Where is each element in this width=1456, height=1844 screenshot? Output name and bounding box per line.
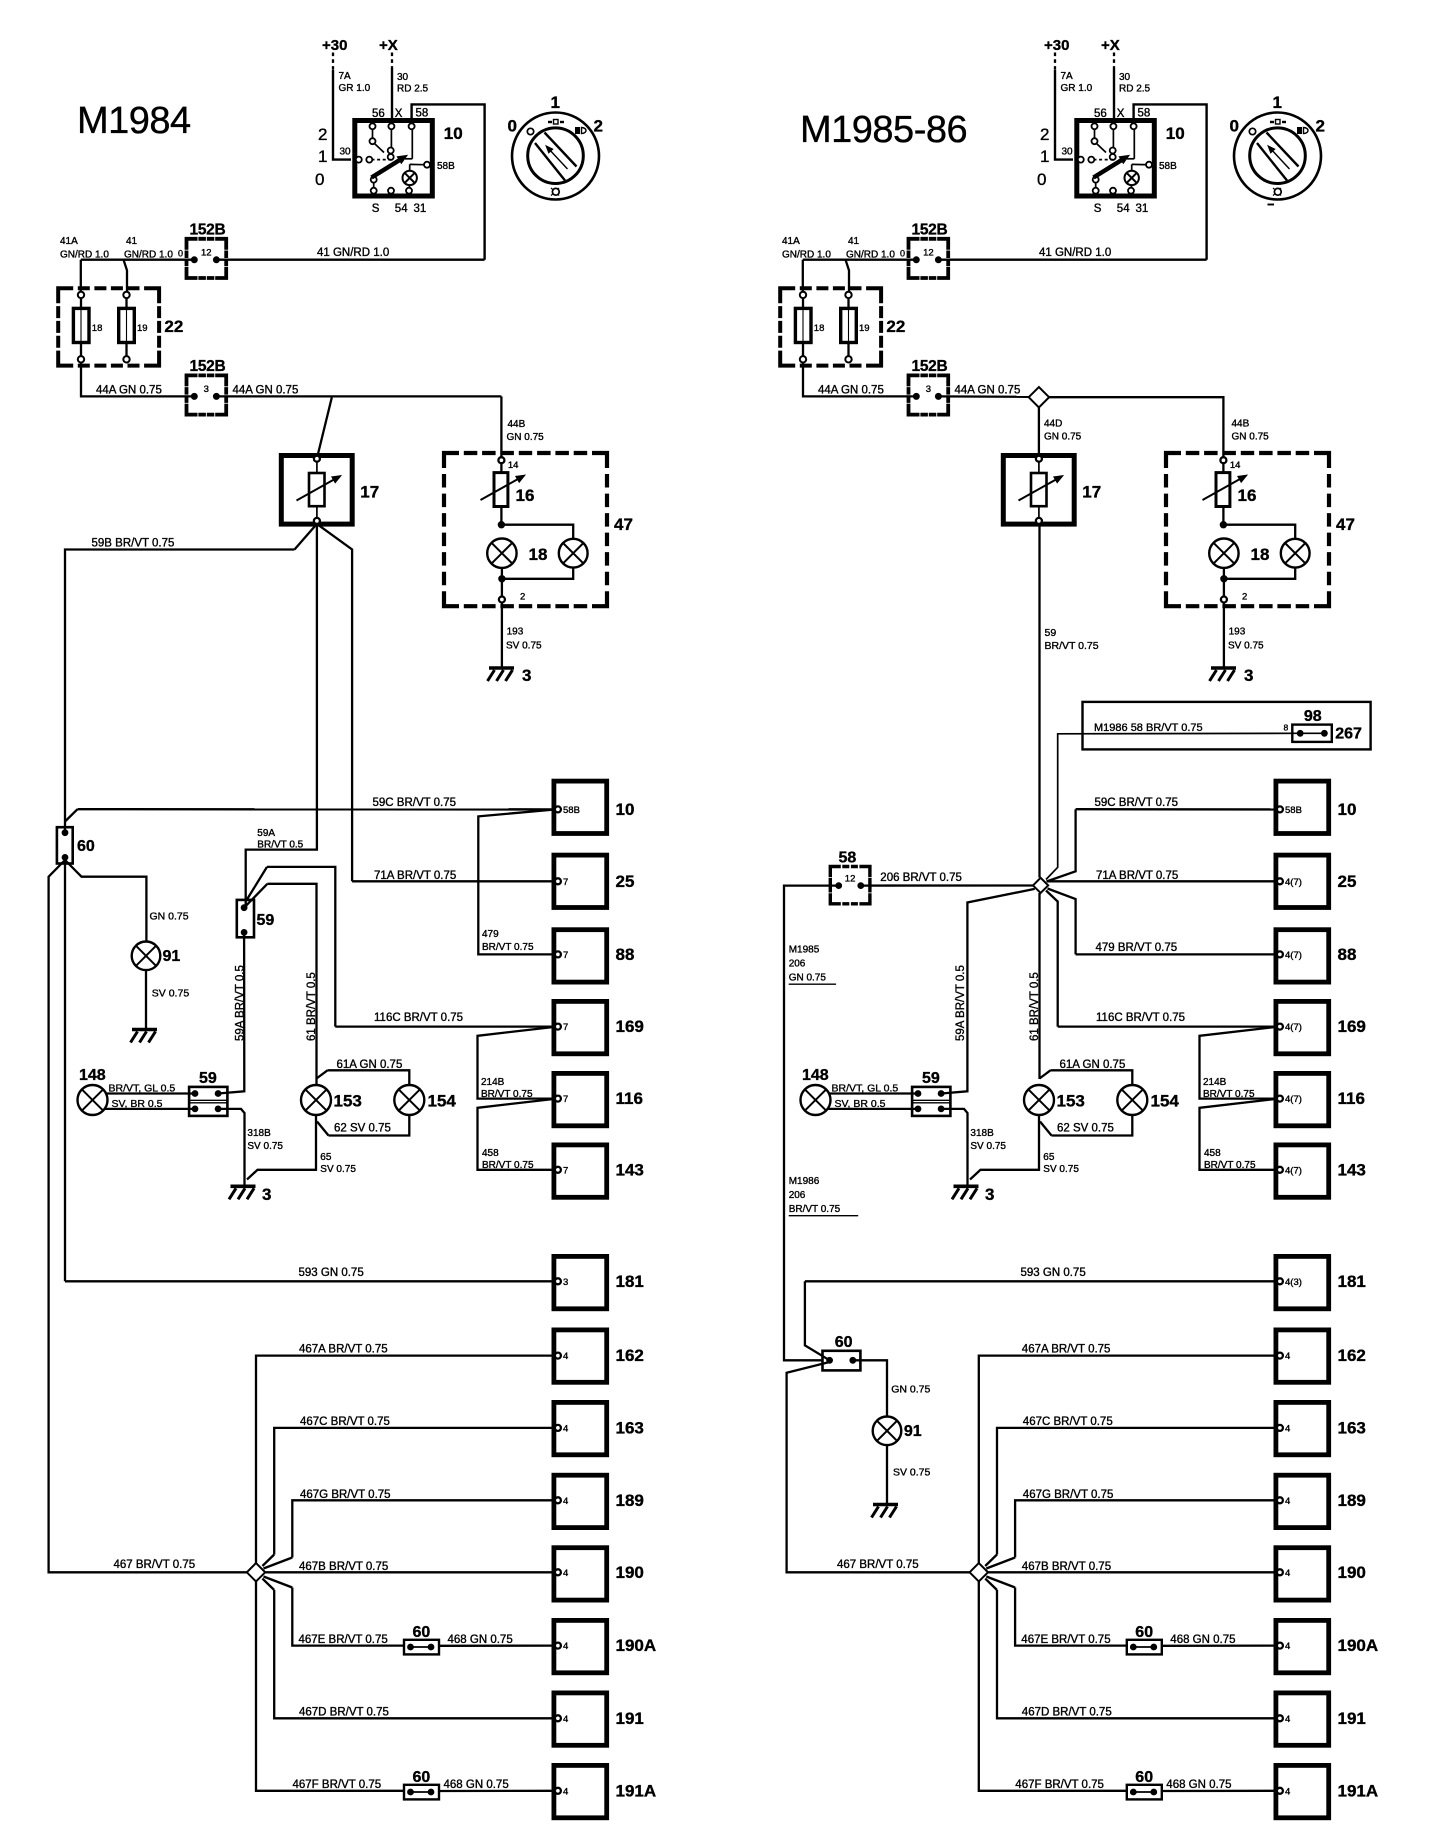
svg-text:10: 10	[1166, 124, 1185, 143]
wire to 116C	[246, 867, 267, 902]
svg-text:22: 22	[886, 317, 905, 336]
svg-text:60: 60	[1135, 1624, 1153, 1641]
switch wiper arm	[1094, 160, 1123, 178]
wire to lamps	[1222, 507, 1224, 525]
svg-text:91: 91	[163, 948, 181, 965]
wire 65 SV 0.75	[970, 1115, 1039, 1180]
wire to 61	[244, 884, 267, 908]
lamp ground bus	[501, 568, 503, 579]
wire 467 trunk right	[787, 1362, 970, 1572]
connector box 116	[1276, 1073, 1329, 1125]
wire 62 SV 0.75	[317, 1122, 329, 1136]
svg-text:61A GN 0.75: 61A GN 0.75	[1060, 1059, 1126, 1071]
wire 479 BR/VT 0.75	[1076, 953, 1277, 955]
wire 467F BR/VT 0.75	[979, 1582, 1127, 1791]
fuse 18	[80, 298, 82, 308]
svg-text:593 GN 0.75: 593 GN 0.75	[1021, 1267, 1086, 1279]
junction diamond 44	[1029, 387, 1049, 407]
svg-text:467G BR/VT 0.75: 467G BR/VT 0.75	[300, 1489, 391, 1501]
svg-text:65: 65	[1043, 1152, 1055, 1163]
svg-text:60: 60	[413, 1624, 431, 1641]
wire 61 from junction	[1038, 893, 1040, 1079]
svg-text:58B: 58B	[563, 805, 580, 816]
svg-text:16: 16	[516, 486, 535, 505]
svg-text:0: 0	[178, 248, 183, 258]
wire SV 0.75 under lamp 91	[886, 1445, 888, 1503]
wire 467G BR/VT 0.75	[264, 1558, 293, 1569]
svg-text:3: 3	[926, 384, 931, 395]
svg-text:4: 4	[563, 1423, 568, 1434]
svg-text:143: 143	[616, 1160, 644, 1179]
key mark below ring	[1268, 204, 1275, 206]
svg-text:31: 31	[414, 203, 427, 215]
connector box 181	[554, 1256, 607, 1308]
svg-text:62 SV 0.75: 62 SV 0.75	[334, 1123, 391, 1135]
svg-text:S: S	[1094, 203, 1102, 215]
svg-text:4(7): 4(7)	[1285, 1165, 1302, 1176]
svg-text:SV 0.75: SV 0.75	[1043, 1164, 1079, 1175]
svg-text:58B: 58B	[437, 161, 455, 172]
svg-text:4: 4	[1285, 1496, 1290, 1507]
svg-text:191A: 191A	[616, 1781, 657, 1800]
svg-text:BR/VT 0.75: BR/VT 0.75	[1045, 640, 1099, 652]
svg-text:M1986 58 BR/VT 0.75: M1986 58 BR/VT 0.75	[1094, 722, 1203, 734]
svg-text:3: 3	[522, 666, 531, 685]
ground 3 mid	[954, 1185, 979, 1189]
svg-text:SV 0.75: SV 0.75	[893, 1467, 931, 1479]
rheostat 17	[281, 456, 352, 525]
svg-text:GN/RD 1.0: GN/RD 1.0	[782, 250, 831, 261]
connector box 162	[554, 1330, 607, 1382]
svg-text:+30: +30	[322, 37, 347, 54]
svg-text:S: S	[372, 203, 380, 215]
svg-text:2: 2	[1242, 592, 1247, 603]
pin 2	[499, 597, 505, 603]
svg-text:163: 163	[616, 1418, 644, 1437]
connector box 88	[554, 930, 607, 982]
svg-text:467 BR/VT 0.75: 467 BR/VT 0.75	[114, 1559, 196, 1571]
svg-text:467B BR/VT 0.75: 467B BR/VT 0.75	[299, 1561, 388, 1573]
svg-text:1: 1	[1040, 147, 1049, 166]
wire 214B BR/VT 0.75	[1200, 1027, 1277, 1099]
svg-text:467E BR/VT 0.75: 467E BR/VT 0.75	[1021, 1634, 1110, 1646]
svg-text:1: 1	[551, 93, 560, 112]
svg-text:BR/VT 0.75: BR/VT 0.75	[789, 1204, 841, 1215]
connector box 190	[1276, 1548, 1329, 1600]
svg-text:479 BR/VT 0.75: 479 BR/VT 0.75	[1096, 942, 1178, 954]
svg-text:BR/VT 0.75: BR/VT 0.75	[482, 942, 534, 953]
svg-text:RD 2.5: RD 2.5	[1119, 84, 1151, 95]
lamp 148	[78, 1085, 108, 1115]
svg-text:4: 4	[1285, 1714, 1290, 1725]
wire 193 SV 0.75	[501, 603, 503, 668]
svg-text:91: 91	[904, 1423, 922, 1440]
connector 58	[830, 867, 870, 904]
wire 479 riser right	[1048, 889, 1076, 955]
wire SV BR 0.5	[828, 1108, 917, 1110]
svg-text:3: 3	[1244, 666, 1253, 685]
svg-text:61 BR/VT 0.5: 61 BR/VT 0.5	[1029, 972, 1041, 1041]
svg-text:59: 59	[1045, 627, 1057, 639]
wire 467D BR/VT 0.75	[985, 1579, 997, 1590]
svg-text:467A BR/VT 0.75: 467A BR/VT 0.75	[299, 1344, 388, 1356]
svg-text:4: 4	[563, 1568, 568, 1579]
connector box 169	[554, 1001, 607, 1053]
lamp 148	[801, 1085, 831, 1115]
svg-text:4: 4	[563, 1641, 568, 1652]
svg-text:BR/VT 0.75: BR/VT 0.75	[1204, 1160, 1256, 1171]
wire 44A GN 0.75	[81, 363, 193, 397]
wire 116C riser right	[1046, 891, 1058, 1027]
svg-text:116C BR/VT 0.75: 116C BR/VT 0.75	[374, 1012, 463, 1024]
connector box 190	[554, 1548, 607, 1600]
svg-text:467G BR/VT 0.75: 467G BR/VT 0.75	[1023, 1489, 1114, 1501]
pin 2	[1221, 597, 1227, 603]
svg-text:467C BR/VT 0.75: 467C BR/VT 0.75	[1023, 1416, 1113, 1428]
svg-text:10: 10	[1338, 800, 1357, 819]
svg-text:3: 3	[204, 384, 209, 395]
svg-text:468 GN 0.75: 468 GN 0.75	[1166, 1779, 1231, 1791]
connector box 163	[554, 1402, 607, 1454]
svg-text:59B BR/VT 0.75: 59B BR/VT 0.75	[92, 538, 175, 550]
svg-text:30: 30	[1119, 72, 1131, 83]
connector 59	[189, 1087, 227, 1116]
svg-text:267: 267	[1335, 726, 1362, 743]
lamp ground bus	[1223, 568, 1225, 579]
svg-text:467A BR/VT 0.75: 467A BR/VT 0.75	[1022, 1344, 1111, 1356]
switch wiper arm	[372, 160, 401, 178]
ground 3	[489, 666, 514, 670]
svg-text:60: 60	[1135, 1769, 1153, 1786]
svg-text:467 BR/VT 0.75: 467 BR/VT 0.75	[837, 1559, 919, 1571]
svg-text:30: 30	[397, 72, 409, 83]
svg-text:4: 4	[563, 1496, 568, 1507]
svg-text:12: 12	[201, 247, 212, 258]
svg-text:BR/VT 0.75: BR/VT 0.75	[482, 1160, 534, 1171]
svg-text:GR 1.0: GR 1.0	[339, 83, 371, 94]
svg-text:61 BR/VT 0.5: 61 BR/VT 0.5	[306, 972, 318, 1041]
connector 152B pin 12	[909, 239, 949, 278]
svg-text:SV, BR 0.5: SV, BR 0.5	[112, 1098, 163, 1110]
connector box 88	[1276, 930, 1329, 982]
wire 65 SV 0.75	[247, 1115, 316, 1180]
svg-text:BR/VT, GL 0.5: BR/VT, GL 0.5	[109, 1083, 176, 1095]
wire 59C riser	[1047, 809, 1076, 881]
svg-text:41: 41	[848, 236, 860, 247]
svg-text:468 GN 0.75: 468 GN 0.75	[448, 1634, 513, 1646]
inline connector 60 on 467F	[1127, 1785, 1162, 1800]
wire BR/VT GL 0.5	[829, 1092, 917, 1094]
wire 467E BR/VT 0.75	[264, 1577, 293, 1588]
svg-text:GN/RD 1.0: GN/RD 1.0	[60, 250, 109, 261]
svg-text:SV 0.75: SV 0.75	[320, 1164, 356, 1175]
wire 468 GN 0.75 to 190A	[1162, 1644, 1278, 1647]
svg-text:152B: 152B	[190, 358, 226, 375]
key slot	[545, 133, 577, 167]
connector box 191	[1276, 1693, 1329, 1745]
svg-text:0: 0	[315, 170, 324, 189]
svg-text:19: 19	[137, 323, 148, 334]
lamp 18 left	[1209, 539, 1238, 568]
svg-text:206: 206	[789, 1190, 806, 1201]
wire 71A riser	[317, 524, 352, 881]
fuse box 22	[58, 288, 159, 365]
svg-text:206 BR/VT 0.75: 206 BR/VT 0.75	[880, 872, 962, 884]
svg-text:54: 54	[395, 203, 408, 215]
svg-text:17: 17	[360, 483, 379, 502]
svg-text:8: 8	[1284, 723, 1289, 733]
svg-text:4: 4	[1285, 1423, 1290, 1434]
svg-text:7: 7	[563, 1022, 568, 1033]
wire 59C branch diagonal at connector 60	[65, 809, 78, 821]
svg-text:169: 169	[1338, 1017, 1366, 1036]
svg-text:4: 4	[563, 1351, 568, 1362]
svg-text:152B: 152B	[912, 221, 948, 238]
svg-text:458: 458	[482, 1148, 499, 1159]
svg-text:BR/VT, GL 0.5: BR/VT, GL 0.5	[832, 1083, 899, 1095]
svg-text:18: 18	[529, 545, 548, 564]
svg-text:17: 17	[1082, 483, 1101, 502]
svg-text:GN 0.75: GN 0.75	[1232, 432, 1270, 443]
connector box 169	[1276, 1001, 1329, 1053]
svg-text:193: 193	[507, 627, 524, 638]
svg-text:4: 4	[1285, 1351, 1290, 1362]
svg-text:+X: +X	[1101, 37, 1120, 54]
svg-text:30: 30	[340, 147, 352, 158]
svg-text:1: 1	[1273, 93, 1282, 112]
connector box 10	[1276, 781, 1329, 833]
wire M1985/M1986 trunk	[784, 886, 836, 1361]
key switch 1	[512, 113, 599, 200]
svg-text:88: 88	[1338, 945, 1357, 964]
svg-text:18: 18	[1251, 545, 1270, 564]
svg-text:60: 60	[835, 1334, 853, 1351]
terminal 58B	[424, 162, 430, 168]
connector box 163	[1276, 1402, 1329, 1454]
svg-text:31: 31	[1136, 203, 1149, 215]
svg-text:3: 3	[563, 1277, 568, 1288]
wire 468 GN 0.75 to 190A	[439, 1644, 555, 1647]
svg-text:0: 0	[508, 117, 517, 136]
wire 59A BR/VT 0.5 lower	[218, 935, 244, 1093]
key slot	[1267, 133, 1299, 167]
fuse 19	[847, 298, 849, 308]
switch illumination lamp	[1125, 171, 1139, 185]
pin 14	[1220, 457, 1226, 463]
connector 59	[912, 1087, 950, 1116]
svg-text:12: 12	[845, 874, 856, 885]
fuse box 22	[780, 288, 881, 365]
svg-text:467E BR/VT 0.75: 467E BR/VT 0.75	[299, 1634, 388, 1646]
junction diamond 467	[247, 1563, 265, 1581]
svg-text:214B: 214B	[1203, 1077, 1227, 1088]
svg-text:59: 59	[199, 1070, 217, 1087]
ground under lamp 91 right	[873, 1503, 898, 1507]
svg-text:BR/VT 0.5: BR/VT 0.5	[257, 840, 303, 851]
svg-text:0: 0	[1037, 170, 1046, 189]
svg-text:SV 0.75: SV 0.75	[247, 1141, 283, 1152]
lamp 18 left	[487, 539, 516, 568]
lamp unit 47	[444, 453, 607, 606]
svg-text:62 SV 0.75: 62 SV 0.75	[1057, 1123, 1114, 1135]
connector 152B pin 3	[187, 375, 227, 414]
rheostat 17	[1003, 456, 1074, 525]
svg-text:169: 169	[616, 1017, 644, 1036]
wire to lamps	[500, 507, 502, 525]
svg-text:7: 7	[563, 877, 568, 888]
svg-text:143: 143	[1338, 1160, 1366, 1179]
svg-text:SV 0.75: SV 0.75	[1228, 641, 1264, 652]
connector box 191A	[1276, 1765, 1329, 1817]
svg-text:148: 148	[79, 1067, 106, 1084]
svg-text:4: 4	[1285, 1641, 1290, 1652]
wire 467A BR/VT 0.75	[979, 1356, 1278, 1564]
svg-text:4(3): 4(3)	[1285, 1277, 1302, 1288]
key position icons	[548, 121, 552, 123]
connector box 191	[554, 1693, 607, 1745]
svg-text:162: 162	[1338, 1346, 1366, 1365]
wire 116C riser	[267, 867, 335, 1027]
svg-text:BR/VT 0.75: BR/VT 0.75	[481, 1089, 533, 1100]
wire 41 GN/RD 1.0	[803, 259, 915, 261]
svg-text:189: 189	[616, 1491, 644, 1510]
wire 458 BR/VT 0.75	[1200, 1099, 1277, 1170]
connector box 25	[554, 855, 607, 907]
svg-text:65: 65	[320, 1152, 332, 1163]
svg-text:30: 30	[1062, 147, 1074, 158]
svg-text:M1984: M1984	[77, 100, 191, 142]
svg-text:56: 56	[372, 108, 385, 120]
svg-text:GN/RD 1.0: GN/RD 1.0	[846, 250, 895, 261]
svg-text:4(7): 4(7)	[1285, 1094, 1302, 1105]
svg-text:X: X	[395, 108, 403, 120]
svg-text:SV, BR 0.5: SV, BR 0.5	[835, 1098, 886, 1110]
svg-text:191A: 191A	[1338, 1781, 1379, 1800]
svg-text:59A BR/VT 0.5: 59A BR/VT 0.5	[955, 965, 967, 1041]
svg-text:44B: 44B	[1232, 419, 1250, 430]
svg-text:467C BR/VT 0.75: 467C BR/VT 0.75	[300, 1416, 390, 1428]
svg-text:59: 59	[922, 1070, 940, 1087]
svg-text:152B: 152B	[190, 221, 226, 238]
ignition switch 10	[355, 121, 433, 197]
switch illumination lamp	[403, 171, 417, 185]
svg-text:152B: 152B	[912, 358, 948, 375]
svg-text:4(7): 4(7)	[1285, 877, 1302, 888]
svg-text:61A GN 0.75: 61A GN 0.75	[337, 1059, 403, 1071]
svg-text:41 GN/RD 1.0: 41 GN/RD 1.0	[317, 247, 389, 259]
svg-text:4(7): 4(7)	[1285, 950, 1302, 961]
svg-text:19: 19	[859, 323, 870, 334]
svg-text:467F BR/VT 0.75: 467F BR/VT 0.75	[293, 1779, 382, 1791]
wire 467C BR/VT 0.75	[262, 1555, 274, 1567]
wire 44B GN 0.75 to lamp unit 47	[1049, 397, 1223, 457]
svg-text:7A: 7A	[1061, 71, 1074, 82]
pin 14	[498, 457, 504, 463]
wire 44A GN 0.75	[803, 363, 915, 397]
connector box 116	[554, 1073, 607, 1125]
svg-text:153: 153	[334, 1092, 362, 1111]
svg-text:181: 181	[1338, 1272, 1366, 1291]
connector 152B pin 12	[187, 239, 227, 278]
svg-text:468 GN 0.75: 468 GN 0.75	[444, 1779, 509, 1791]
svg-text:190: 190	[616, 1563, 644, 1582]
svg-text:59: 59	[257, 912, 275, 929]
wire 467F BR/VT 0.75	[256, 1582, 404, 1791]
svg-text:12: 12	[923, 247, 934, 258]
svg-text:SV 0.75: SV 0.75	[970, 1141, 1006, 1152]
svg-text:318B: 318B	[970, 1128, 994, 1139]
wire 467G BR/VT 0.75	[986, 1558, 1015, 1569]
connector box 143	[1276, 1145, 1329, 1197]
wire 468 GN 0.75 to 191A	[439, 1790, 555, 1792]
svg-text:GN 0.75: GN 0.75	[891, 1384, 930, 1396]
wire BR/VT GL 0.5	[106, 1092, 194, 1094]
svg-text:479: 479	[482, 929, 499, 940]
connector box 10	[554, 781, 607, 833]
wire 467A BR/VT 0.75	[256, 1356, 555, 1564]
wire 318B SV 0.75	[218, 1109, 244, 1185]
svg-text:0: 0	[900, 248, 905, 258]
svg-text:41: 41	[126, 236, 138, 247]
svg-text:59C BR/VT 0.75: 59C BR/VT 0.75	[1095, 797, 1179, 809]
wire 479 BR/VT 0.75	[478, 810, 555, 955]
wire 468 GN 0.75 to 191A	[1162, 1790, 1278, 1792]
wire GN 0.75 to lamp 91	[65, 860, 146, 942]
svg-text:M1985: M1985	[789, 945, 820, 956]
svg-text:M1985-86: M1985-86	[800, 109, 967, 151]
lamp 91	[132, 942, 161, 971]
svg-text:10: 10	[444, 124, 463, 143]
svg-text:16: 16	[1238, 486, 1257, 505]
inline connector 60 on 467E	[404, 1640, 439, 1655]
svg-text:58B: 58B	[1159, 161, 1177, 172]
lamp 154	[1117, 1085, 1147, 1115]
svg-text:18: 18	[814, 323, 825, 334]
svg-text:7: 7	[563, 950, 568, 961]
junction X	[1033, 878, 1048, 893]
connector box 181	[1276, 1256, 1329, 1308]
svg-text:154: 154	[1151, 1092, 1180, 1111]
key position icons	[1270, 121, 1274, 123]
svg-text:162: 162	[616, 1346, 644, 1365]
inline connector 60 on 467F	[404, 1785, 439, 1800]
wire M1986 58 to junction	[1046, 733, 1297, 879]
ground under lamp 91	[132, 1028, 157, 1032]
wire 467B BR/VT 0.75	[265, 1571, 555, 1573]
ignition switch 10	[1077, 121, 1155, 197]
lamp 153	[301, 1085, 331, 1115]
svg-text:GN 0.75: GN 0.75	[150, 911, 189, 923]
svg-text:22: 22	[164, 317, 183, 336]
svg-text:44A GN 0.75: 44A GN 0.75	[233, 385, 299, 397]
svg-text:7A: 7A	[339, 71, 352, 82]
terminal 58B	[1146, 162, 1152, 168]
svg-text:190: 190	[1338, 1563, 1366, 1582]
wire 467D BR/VT 0.75	[262, 1579, 274, 1590]
svg-text:RD 2.5: RD 2.5	[397, 84, 429, 95]
lamp 18 right	[1281, 539, 1310, 568]
svg-text:+30: +30	[1044, 37, 1069, 54]
key switch 1	[1234, 113, 1321, 200]
svg-text:467D BR/VT 0.75: 467D BR/VT 0.75	[299, 1707, 389, 1719]
svg-text:4(7): 4(7)	[1285, 1022, 1302, 1033]
lamp 153	[1024, 1085, 1054, 1115]
ground 3 mid	[231, 1185, 256, 1189]
connector box 143	[554, 1145, 607, 1197]
wire from terminal 58 to wire 41	[412, 104, 485, 259]
svg-text:0: 0	[1230, 117, 1239, 136]
svg-text:58: 58	[416, 108, 429, 120]
